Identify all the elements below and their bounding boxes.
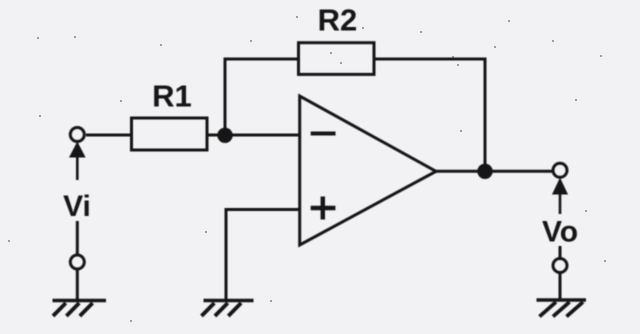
ground (left, below Vi) xyxy=(53,299,107,303)
wire below Vi label xyxy=(76,221,79,255)
output terminal circle (Vo) xyxy=(553,163,567,177)
resistor R1 xyxy=(132,118,208,150)
ground (right, below Vo) xyxy=(537,298,587,302)
wire below Vo label xyxy=(559,246,562,259)
arrow at Vo terminal xyxy=(552,178,568,195)
arrow at Vi terminal xyxy=(69,142,86,158)
wire R1 to inverting input xyxy=(207,134,300,137)
op-amp inverting input minus sign xyxy=(311,132,336,136)
wire R2 right down to output node xyxy=(374,59,485,171)
wire node A up to R2 left xyxy=(225,59,299,135)
Vo lower terminal circle xyxy=(553,259,567,273)
wire non-inverting input to ground xyxy=(226,210,300,300)
op-amp non-inverting input plus sign xyxy=(311,197,336,220)
wire Vo lower circle to ground xyxy=(559,273,562,301)
wire Vi lower circle to ground xyxy=(76,269,79,301)
node A (junction dot at inverting input) xyxy=(217,128,232,143)
node B (output junction dot) xyxy=(477,164,492,179)
svg-text:Vi: Vi xyxy=(63,190,91,223)
wire input terminal to R1 xyxy=(86,134,132,137)
op-amp U1 triangle xyxy=(300,96,436,245)
wire op-amp output to output terminal xyxy=(436,170,553,173)
wire Vi arrow stem xyxy=(76,156,79,180)
svg-text:Vo: Vo xyxy=(542,215,578,248)
svg-text:R1: R1 xyxy=(152,79,192,114)
input terminal circle (Vi) xyxy=(70,128,84,142)
svg-text:R2: R2 xyxy=(318,3,358,38)
resistor R2 xyxy=(299,43,375,75)
Vi lower terminal circle xyxy=(70,255,84,269)
wire Vo arrow stem xyxy=(559,193,562,214)
ground (middle, non-inverting input) xyxy=(204,299,254,303)
